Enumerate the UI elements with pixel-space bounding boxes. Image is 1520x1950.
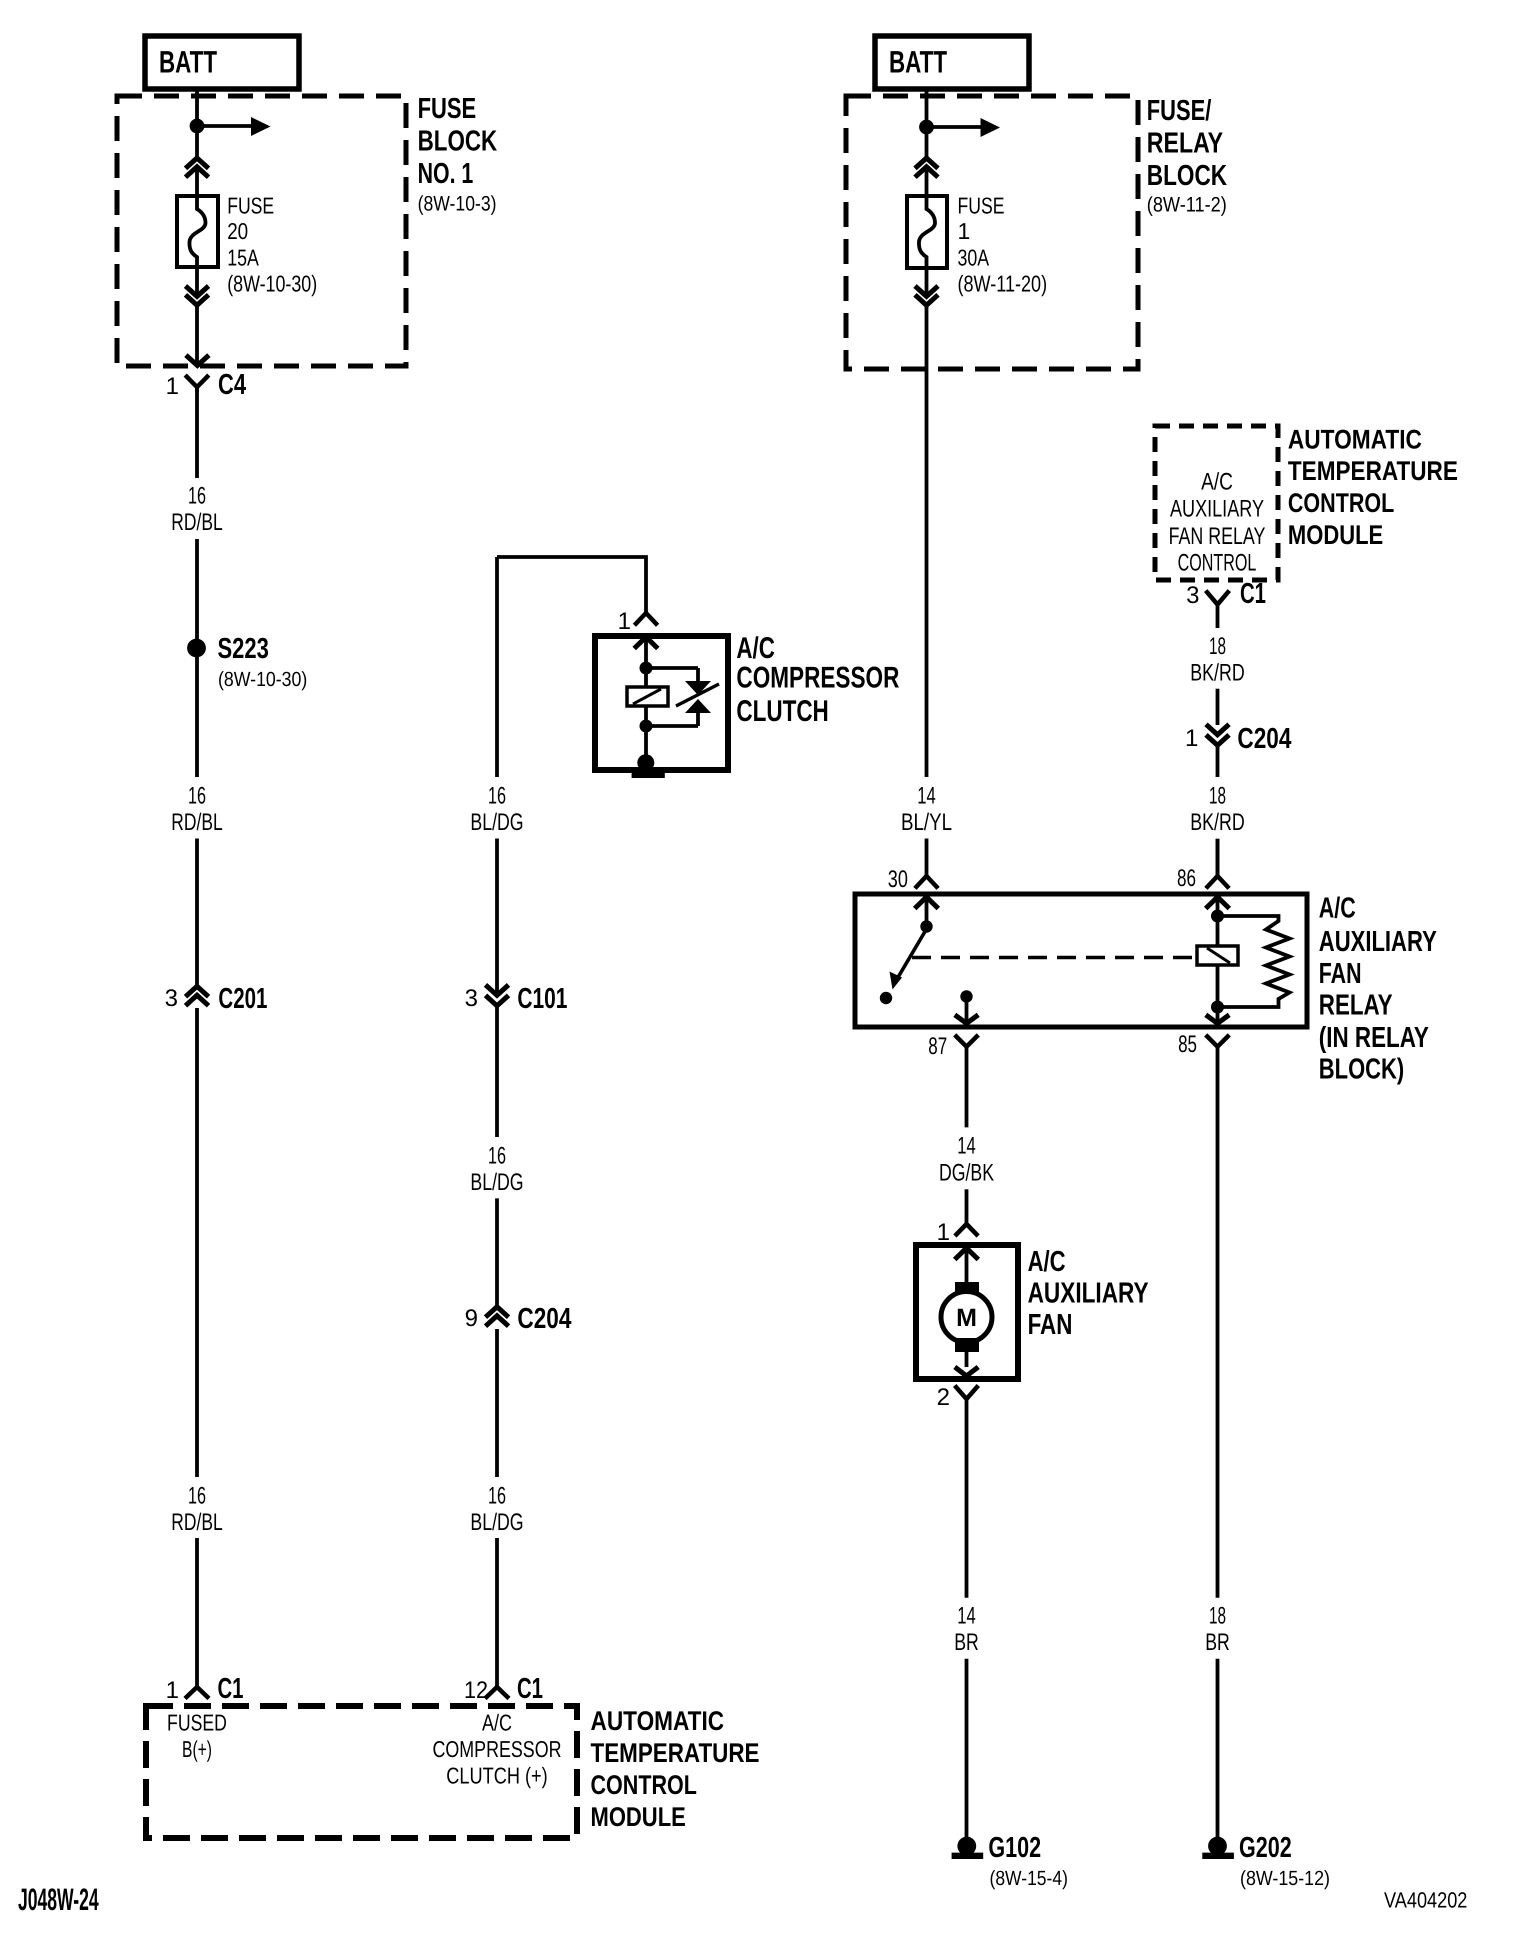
wire label 16 RD/BL (3)	[171, 1483, 222, 1536]
label 9 C204	[465, 1303, 572, 1335]
svg-text:16: 16	[488, 783, 506, 810]
connector C1 pin 3 fork	[1206, 591, 1230, 605]
junction node (right feed)	[919, 120, 934, 135]
clutch diode (transorb)	[676, 681, 719, 713]
wire relay 85 down	[1216, 1047, 1220, 1598]
svg-text:VA404202: VA404202	[1384, 1888, 1467, 1913]
label fan pin 2	[937, 1384, 950, 1411]
fan pin 2 wire	[965, 1352, 969, 1367]
ATC module dashed box (top right)	[1155, 426, 1278, 580]
clutch node bottom	[640, 720, 653, 733]
connector C204 pin 1 symbol	[1206, 724, 1229, 745]
svg-text:1: 1	[166, 1677, 179, 1704]
wire to ATC module pin 1	[195, 1538, 199, 1687]
svg-text:14: 14	[957, 1132, 976, 1159]
wire C1 pin3 down	[1216, 605, 1220, 629]
svg-text:FAN: FAN	[1319, 958, 1362, 990]
svg-text:FUSE: FUSE	[418, 93, 477, 125]
label 1 C1 (left)	[166, 1673, 244, 1705]
svg-text:C201: C201	[218, 983, 267, 1015]
relay pin 87 chevron	[955, 1015, 978, 1024]
svg-text:BLOCK): BLOCK)	[1319, 1054, 1404, 1086]
label 12 C1	[464, 1673, 543, 1705]
wire to fan pin 1	[965, 1189, 969, 1224]
svg-text:C204: C204	[1237, 723, 1291, 755]
wire to relay pin 86	[1216, 839, 1220, 876]
wire relay 87 down	[965, 1047, 969, 1128]
relay pin 87 wire	[965, 1000, 969, 1023]
svg-text:3: 3	[1186, 582, 1199, 609]
svg-text:BATT: BATT	[159, 45, 217, 80]
svg-text:AUTOMATIC: AUTOMATIC	[591, 1706, 725, 1736]
wire label 14 DG/BK	[939, 1132, 994, 1186]
svg-text:C204: C204	[517, 1303, 571, 1335]
svg-text:FUSE/: FUSE/	[1147, 95, 1212, 127]
svg-text:2: 2	[937, 1384, 950, 1411]
svg-text:AUXILIARY: AUXILIARY	[1170, 496, 1264, 523]
wire to connector C101	[495, 839, 499, 996]
svg-text:BK/RD: BK/RD	[1190, 659, 1245, 686]
ATC module dashed box (bottom)	[146, 1706, 577, 1838]
label FUSE/RELAY BLOCK	[1147, 95, 1227, 217]
relay pin 86 wire above	[1216, 839, 1220, 876]
svg-text:CONTROL: CONTROL	[1288, 488, 1394, 518]
label fan pin 1	[937, 1219, 950, 1246]
wire C201 down	[195, 1008, 199, 1477]
svg-text:9: 9	[465, 1305, 478, 1332]
label A/C AUXILIARY FAN RELAY CONTROL	[1169, 469, 1266, 577]
double chevron down (right fuse)	[915, 286, 938, 305]
wire to connector C201	[195, 839, 199, 987]
A/C compressor clutch box	[595, 636, 728, 770]
ground G202	[1202, 1837, 1234, 1856]
svg-text:MODULE: MODULE	[1288, 520, 1383, 550]
wire C204 down	[495, 1329, 499, 1477]
relay wire through coil	[1216, 916, 1220, 1007]
wire BATT to fuse 1	[925, 89, 929, 196]
svg-text:CLUTCH: CLUTCH	[736, 695, 828, 728]
fuse/relay block dashed box	[846, 96, 1138, 369]
wire to ATC module pin 12	[495, 1538, 499, 1687]
wire label 18 BK/RD (1)	[1190, 633, 1245, 686]
fuse 20 15A	[177, 196, 218, 267]
svg-text:C1: C1	[1240, 578, 1266, 610]
label G202 (8W-15-12)	[1239, 1832, 1330, 1890]
svg-text:BR: BR	[954, 1629, 979, 1656]
svg-text:FUSE: FUSE	[227, 193, 274, 219]
svg-text:(8W-10-30): (8W-10-30)	[227, 270, 317, 296]
svg-text:BL/DG: BL/DG	[470, 1169, 523, 1196]
svg-text:AUXILIARY: AUXILIARY	[1028, 1278, 1149, 1310]
svg-text:16: 16	[188, 483, 206, 510]
fuse block no.1 dashed box	[117, 96, 406, 366]
feed arrow right (left)	[197, 117, 271, 136]
svg-text:M: M	[956, 1304, 977, 1332]
wire label 16 BL/DG (1)	[470, 783, 523, 836]
wire label 16 BL/DG (2)	[470, 1142, 523, 1196]
svg-text:BATT: BATT	[889, 45, 947, 80]
label 3 C201	[165, 983, 268, 1015]
svg-text:C101: C101	[517, 983, 567, 1015]
wire fuse 20 to C4	[195, 267, 199, 364]
svg-text:1: 1	[1185, 725, 1198, 752]
svg-text:1: 1	[166, 373, 179, 400]
A/C auxiliary fan box	[916, 1245, 1018, 1379]
svg-text:NO. 1: NO. 1	[418, 158, 474, 190]
junction node (left feed)	[190, 119, 205, 134]
svg-text:B(+): B(+)	[182, 1736, 212, 1762]
svg-text:C4: C4	[218, 369, 246, 401]
wire C4 to label 16 RD/BL	[195, 390, 199, 478]
wire S223 down	[195, 657, 199, 777]
svg-text:TEMPERATURE: TEMPERATURE	[1288, 456, 1458, 486]
wire clutch feed down	[495, 557, 499, 777]
wire label 14 BR	[954, 1602, 979, 1655]
svg-text:(IN RELAY: (IN RELAY	[1319, 1022, 1429, 1054]
wire to G102	[965, 1659, 969, 1838]
label A/C COMPRESSOR CLUTCH	[736, 632, 899, 728]
svg-text:FUSED: FUSED	[167, 1710, 227, 1736]
svg-text:FAN: FAN	[1028, 1309, 1073, 1341]
connector clutch pin 1 fork	[634, 613, 657, 625]
label AUTOMATIC TEMPERATURE CONTROL MODULE (top right)	[1288, 424, 1458, 550]
svg-text:S223: S223	[218, 633, 269, 665]
clutch node top	[640, 662, 653, 675]
footer code VA404202	[1384, 1888, 1467, 1913]
relay switch blade	[890, 929, 927, 990]
svg-text:RELAY: RELAY	[1147, 128, 1223, 160]
connector C1 pin 12 fork	[485, 1687, 509, 1699]
connector C1 pin 1 fork	[185, 1687, 209, 1699]
label A/C COMPRESSOR CLUTCH (+)	[433, 1710, 562, 1789]
relay coil	[1197, 946, 1238, 965]
label A/C AUXILIARY FAN RELAY (IN RELAY BLOCK)	[1319, 893, 1437, 1086]
relay pin 87 node	[960, 990, 972, 1002]
svg-text:18: 18	[1209, 783, 1226, 810]
svg-text:30: 30	[888, 866, 908, 893]
svg-text:85: 85	[1178, 1031, 1197, 1058]
wire C101 down	[495, 1007, 499, 1137]
wire to connector C204 (9)	[495, 1198, 499, 1306]
wire label 18 BK/RD (2)	[1190, 783, 1245, 836]
fan pin 1 chevron	[955, 1248, 979, 1283]
A/C auxiliary fan relay box	[855, 894, 1307, 1027]
svg-text:16: 16	[188, 1483, 206, 1510]
svg-text:DG/BK: DG/BK	[939, 1159, 994, 1186]
label G102 (8W-15-4)	[988, 1832, 1068, 1890]
relay armature dashed link	[912, 956, 1196, 959]
label A/C AUXILIARY FAN	[1028, 1246, 1149, 1341]
relay pin 85 chevron	[1206, 1013, 1229, 1023]
connector C101 symbol	[486, 985, 509, 1006]
svg-text:BL/YL: BL/YL	[901, 809, 952, 836]
double chevron up (right fuse)	[915, 158, 938, 177]
svg-text:A/C: A/C	[736, 632, 775, 665]
svg-text:RD/BL: RD/BL	[171, 1509, 222, 1536]
label pin 87	[928, 1033, 947, 1060]
svg-text:12: 12	[464, 1677, 488, 1704]
svg-text:AUXILIARY: AUXILIARY	[1319, 926, 1437, 958]
wire label 16 RD/BL (1)	[171, 483, 222, 536]
svg-text:CLUTCH (+): CLUTCH (+)	[446, 1763, 547, 1789]
wire fuse 1 to label 14 BL/YL	[925, 268, 929, 777]
svg-text:15A: 15A	[227, 244, 259, 270]
svg-text:G202: G202	[1239, 1832, 1292, 1864]
svg-text:BK/RD: BK/RD	[1190, 809, 1245, 836]
svg-text:C1: C1	[218, 1673, 244, 1705]
svg-text:COMPRESSOR: COMPRESSOR	[736, 662, 899, 695]
label 1 C4	[166, 369, 246, 401]
svg-text:18: 18	[1209, 1602, 1226, 1629]
label pin 1 (clutch)	[618, 608, 631, 635]
relay pin 30 chevron	[915, 897, 939, 921]
label AUTOMATIC TEMPERATURE CONTROL MODULE (bottom)	[591, 1706, 760, 1832]
wire label 16 BL/DG (3)	[470, 1483, 523, 1536]
wire to splice S223	[195, 539, 199, 640]
clutch coil	[627, 687, 668, 706]
svg-text:FAN RELAY: FAN RELAY	[1169, 523, 1266, 550]
svg-text:86: 86	[1177, 865, 1196, 892]
svg-text:16: 16	[488, 1142, 506, 1169]
label FUSE 20 15A (8W-10-30)	[227, 193, 317, 297]
svg-text:16: 16	[488, 1483, 506, 1510]
wire label 14 BL/YL	[901, 783, 952, 836]
svg-text:A/C: A/C	[1319, 893, 1356, 925]
wire to relay pin 30	[925, 839, 929, 877]
svg-text:RD/BL: RD/BL	[171, 509, 222, 536]
battery feed box BATT (right)	[875, 36, 1029, 89]
footer diagram id J048W-24	[18, 1882, 99, 1917]
label pin 86	[1177, 865, 1196, 892]
clutch ground stub	[644, 726, 648, 756]
fan motor M	[941, 1282, 992, 1352]
svg-text:1: 1	[618, 608, 631, 635]
label pin 30	[888, 866, 908, 893]
relay switch common node	[920, 920, 932, 932]
svg-text:BLOCK: BLOCK	[418, 125, 498, 157]
svg-text:(8W-15-4): (8W-15-4)	[990, 1867, 1068, 1890]
wire to G202	[1216, 1659, 1220, 1838]
label FUSE BLOCK NO. 1	[418, 93, 498, 216]
svg-text:BR: BR	[1205, 1629, 1230, 1656]
wire fan to label 14 BR	[965, 1399, 969, 1598]
connector C204 pin 9 symbol	[486, 1307, 509, 1326]
svg-text:20: 20	[227, 218, 248, 244]
svg-text:18: 18	[1209, 633, 1226, 660]
clutch pin chevron	[634, 637, 658, 663]
connector fan pin 2 fork	[955, 1386, 979, 1400]
wire to connector C204 (1)	[1216, 689, 1220, 725]
svg-text:1: 1	[937, 1219, 950, 1246]
connector pin 30 fork	[915, 876, 938, 888]
relay coil node top	[1211, 910, 1224, 923]
svg-text:14: 14	[957, 1602, 976, 1629]
wire label 16 RD/BL (2)	[171, 783, 222, 836]
label FUSE 1 30A (8W-11-20)	[958, 193, 1048, 297]
svg-text:BL/DG: BL/DG	[470, 1509, 523, 1536]
svg-text:CONTROL: CONTROL	[1178, 549, 1257, 576]
svg-text:J048W-24: J048W-24	[18, 1882, 99, 1917]
svg-text:G102: G102	[988, 1832, 1041, 1864]
wire label 18 BR	[1205, 1602, 1230, 1655]
connector pin 86 fork	[1206, 876, 1229, 888]
connector pin 85 fork	[1206, 1035, 1230, 1047]
svg-text:14: 14	[917, 783, 936, 810]
wire C204 down	[1216, 746, 1220, 777]
label 3 C1 (right)	[1186, 578, 1266, 610]
relay resistor	[1218, 916, 1290, 1007]
svg-text:A/C: A/C	[482, 1710, 512, 1736]
svg-text:TEMPERATURE: TEMPERATURE	[591, 1738, 760, 1768]
battery feed box BATT (left)	[145, 36, 299, 89]
svg-text:RD/BL: RD/BL	[171, 809, 222, 836]
splice S223	[187, 639, 206, 658]
svg-text:16: 16	[188, 783, 206, 810]
svg-text:A/C: A/C	[1028, 1246, 1066, 1278]
clutch wire through coil	[644, 668, 648, 726]
svg-text:3: 3	[465, 985, 478, 1012]
svg-text:MODULE: MODULE	[591, 1802, 686, 1832]
label FUSED B(+)	[167, 1710, 227, 1763]
connector fan pin 1 fork	[955, 1224, 978, 1236]
clutch ground	[632, 754, 665, 775]
svg-text:C1: C1	[517, 1673, 543, 1705]
double chevron down (left fuse)	[186, 286, 209, 305]
clutch diode branch wires	[646, 668, 698, 726]
fan pin 2 chevron	[955, 1367, 978, 1376]
wire clutch feed (top)	[497, 557, 646, 613]
svg-text:3: 3	[165, 985, 178, 1012]
svg-text:BL/DG: BL/DG	[470, 809, 523, 836]
svg-text:COMPRESSOR: COMPRESSOR	[433, 1736, 562, 1762]
svg-text:30A: 30A	[958, 244, 990, 270]
connector pin 87 fork	[955, 1035, 979, 1047]
relay switch contact node	[880, 992, 892, 1004]
svg-text:(8W-10-30): (8W-10-30)	[218, 668, 307, 691]
svg-text:RELAY: RELAY	[1319, 990, 1393, 1022]
svg-text:CONTROL: CONTROL	[591, 1770, 697, 1800]
label pin 85	[1178, 1031, 1197, 1058]
double chevron up (left fuse)	[186, 158, 209, 177]
svg-text:A/C: A/C	[1201, 469, 1233, 496]
ground G102	[952, 1837, 984, 1856]
svg-text:(8W-11-2): (8W-11-2)	[1147, 194, 1227, 217]
svg-text:1: 1	[958, 218, 971, 244]
connector C4 symbol	[185, 355, 209, 392]
svg-text:(8W-10-3): (8W-10-3)	[418, 193, 497, 216]
svg-text:(8W-15-12): (8W-15-12)	[1240, 1867, 1330, 1890]
svg-text:(8W-11-20): (8W-11-20)	[958, 270, 1048, 296]
feed arrow right (right)	[927, 118, 1001, 137]
svg-text:FUSE: FUSE	[958, 193, 1005, 219]
relay coil node bottom	[1211, 1001, 1224, 1014]
fuse 1 30A	[907, 196, 947, 268]
svg-text:AUTOMATIC: AUTOMATIC	[1288, 424, 1422, 454]
label 1 C204	[1185, 723, 1291, 755]
svg-text:87: 87	[928, 1033, 947, 1060]
connector C201 symbol	[186, 986, 209, 1005]
label 3 C101	[465, 983, 568, 1015]
wire BATT to fuse 20	[195, 89, 199, 196]
label S223 (8W-10-30)	[218, 633, 308, 691]
relay pin 86 chevron	[1206, 897, 1230, 911]
svg-text:BLOCK: BLOCK	[1147, 160, 1227, 192]
